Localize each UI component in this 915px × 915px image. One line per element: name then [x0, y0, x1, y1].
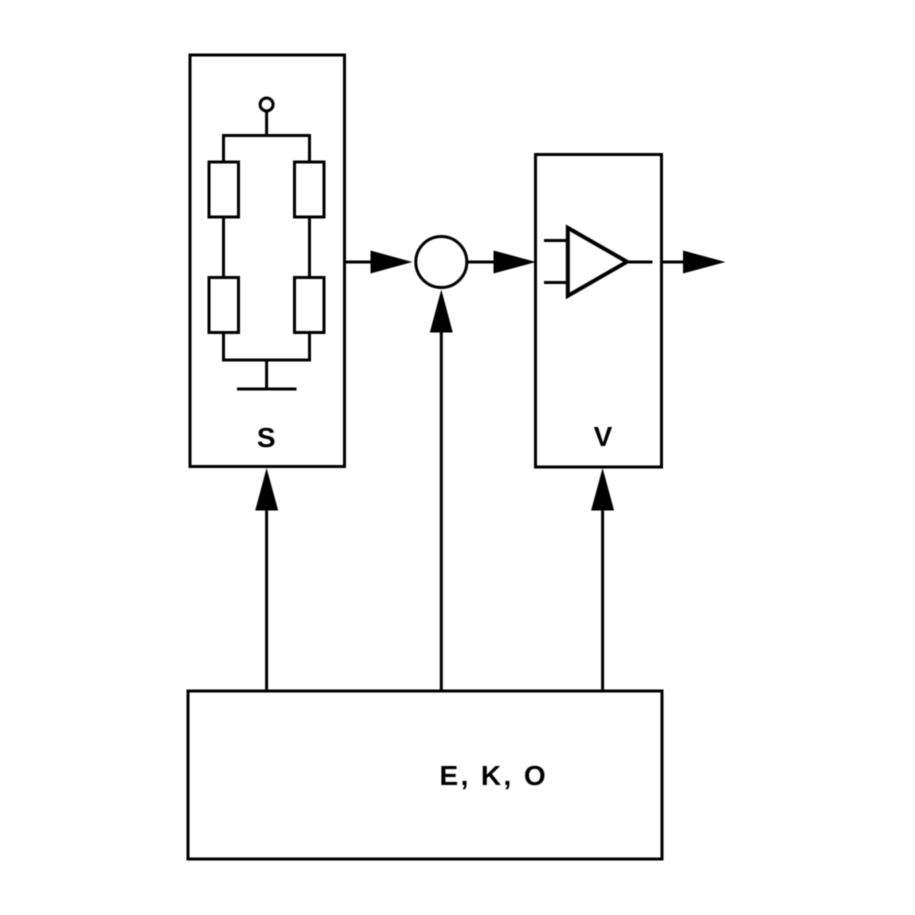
svg-text:V: V: [594, 421, 613, 452]
svg-text:E, K, O: E, K, O: [440, 760, 549, 791]
svg-text:S: S: [257, 422, 276, 453]
